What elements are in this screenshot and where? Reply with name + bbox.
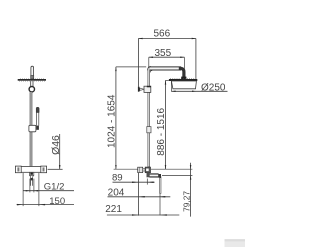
mixer axis stub right: [48, 168, 63, 170]
riser pipe light core: [148, 68, 150, 167]
dim O250 line: [171, 90, 227, 92]
svg-text:355: 355: [154, 48, 171, 59]
wall bracket clamp: [144, 86, 151, 92]
dim 150 extension lines: [23, 173, 39, 206]
wall bracket stem: [140, 88, 144, 91]
hand shower handle: [37, 113, 39, 126]
riser pipe front: [30, 92, 32, 166]
shower arm end-on stem: [31, 66, 34, 79]
mixer side body: [145, 167, 150, 173]
ball joint: [29, 87, 34, 92]
pipe top inner corner: [150, 71, 152, 73]
wall reference line top: [137, 39, 139, 87]
outlet tube: [30, 178, 33, 181]
dim G1/2 extension lines: [30, 179, 34, 193]
svg-text:886 - 1516: 886 - 1516: [156, 107, 167, 155]
neck under bar: [31, 81, 33, 86]
hand shower tip: [36, 126, 39, 130]
svg-text:204: 204: [108, 187, 125, 198]
svg-text:1024 - 1654: 1024 - 1654: [107, 94, 118, 148]
svg-text:Ø250: Ø250: [201, 83, 226, 94]
overhead shower head edge-on bar: [18, 79, 46, 81]
ext 355 left: [148, 57, 150, 66]
mixer side knob: [138, 167, 143, 172]
head body side: [171, 81, 196, 89]
spout corner: [158, 174, 161, 178]
ext stub head level: [166, 79, 169, 81]
svg-text:221: 221: [105, 204, 122, 215]
ext stub arm level: [116, 66, 148, 68]
hand shower head: [36, 107, 39, 112]
ext head front edge: [170, 81, 172, 91]
mixer body front: [15, 167, 46, 173]
ext spout level: [162, 174, 192, 176]
svg-text:150: 150: [49, 196, 65, 207]
faint watermark corner blob: [225, 239, 246, 247]
outlet fitting under mixer: [29, 172, 33, 175]
ext 566 right: [195, 39, 197, 79]
dim G1/2 line: [23, 190, 74, 192]
dim 221 line: [107, 214, 179, 216]
holder bracket: [29, 125, 36, 132]
dim 89 line: [113, 181, 155, 183]
head plate ticks: [171, 77, 196, 80]
arm collar: [181, 77, 186, 80]
svg-text:79,27: 79,27: [181, 191, 191, 212]
svg-text:Ø46: Ø46: [51, 135, 62, 155]
ext spout axis below: [159, 194, 161, 216]
slider on pipe: [147, 127, 151, 133]
mixer left cap: [15, 166, 21, 173]
ext stub valve level left: [114, 168, 138, 170]
mixer side outlet: [147, 173, 150, 178]
pipe top outer corner rounding: [146, 66, 148, 69]
nozzle ticks under bar: [19, 80, 44, 83]
wall reference line bottom: [137, 173, 139, 216]
dim 1024-1654 line: [115, 67, 117, 169]
dim 204 line: [108, 196, 171, 198]
wall bracket knob: [138, 87, 140, 92]
dim O46 leader line: [59, 134, 61, 169]
ext 355 right: [183, 57, 185, 74]
svg-text:566: 566: [153, 29, 170, 40]
ext outlet axis: [146, 179, 148, 185]
dim 886-1516 line: [165, 80, 167, 169]
dim 355 line: [149, 56, 185, 58]
ext valve level right: [151, 168, 192, 170]
mixer right cap: [41, 166, 47, 173]
shower arm side: [148, 66, 182, 70]
spout down pipe: [159, 177, 161, 194]
outlet taper: [30, 175, 34, 177]
dim 79,27 line: [190, 163, 192, 217]
dim 150 line: [17, 204, 74, 206]
dim 566 line: [138, 38, 196, 40]
mixer side stem: [143, 168, 146, 171]
svg-text:89: 89: [112, 173, 123, 184]
arm elbow and drop: [181, 68, 184, 79]
head plate side: [169, 79, 197, 81]
stem collar: [31, 75, 34, 79]
spout horizontal: [149, 173, 158, 177]
svg-text:G1/2: G1/2: [44, 182, 65, 193]
cap inner shading: [17, 167, 19, 171]
riser pipe side: [148, 67, 150, 167]
